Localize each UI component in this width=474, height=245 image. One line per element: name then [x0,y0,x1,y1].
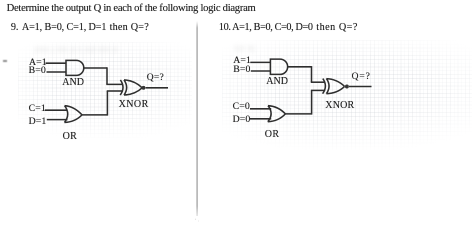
title [7,4,256,15]
wire input A (problem 9) [46,62,67,64]
problem 10 heading [219,23,358,33]
output label Q=? (problem 9) [147,74,164,84]
wire vertical up to XNOR bottom input (problem 10) [311,90,313,114]
XNOR output bubble dot (problem 9) [142,86,146,90]
gate label AND (problem 9) [62,78,84,88]
AND gate (problem 10) [270,59,287,74]
XNOR output bubble dot (problem 10) [345,85,349,89]
wire output Q (problem 10) [349,86,372,88]
wire input A (problem 10) [250,61,270,63]
value label A=1 (problem 9) [29,58,47,68]
OR gate (problem 10) [268,106,286,122]
wire input D (problem 9) [47,119,68,121]
wire AND output to corner (problem 10) [288,66,312,68]
wire input B (problem 9) [47,71,67,73]
XNOR gate (problem 9) [120,80,142,95]
divider line between problems [196,21,198,216]
value label C=0 (problem 10) [233,102,250,112]
wire OR output to corner (problem 10) [285,113,311,115]
gate label OR (problem 10) [265,130,280,140]
value label D=0 (problem 10) [233,115,251,125]
output label Q=? (problem 10) [352,73,371,83]
OR gate (problem 9) [65,106,83,123]
wire OR output to corner (problem 9) [82,114,107,116]
value label C=1 (problem 9) [29,104,46,114]
wire vertical down to XNOR top input (problem 9) [106,67,108,84]
wire vertical up to XNOR bottom input (problem 9) [106,91,108,116]
gate label OR (problem 9) [63,132,78,142]
value label D=1 (problem 9) [29,117,47,127]
XNOR gate (problem 10) [323,79,345,94]
value label B=0 (problem 9) [29,66,46,76]
speckle smudge at divider bottom [194,218,200,222]
wire input D (problem 10) [250,118,271,120]
value label A=1 (problem 10) [233,56,251,66]
gate label XNOR (problem 10) [325,101,354,111]
wire stub into XNOR bottom input (problem 9) [107,90,123,92]
gate label AND (problem 10) [266,77,288,87]
wire output Q (problem 9) [146,87,168,89]
value label B=0 (problem 10) [233,65,250,75]
wire vertical down to XNOR top input (problem 10) [311,66,313,82]
problem 9 heading [11,23,149,33]
AND gate (problem 9) [66,60,84,75]
wire stub into XNOR top input (problem 9) [106,83,122,85]
stray mark at left margin [3,60,8,62]
wire AND output to corner (problem 9) [84,67,107,69]
wire input B (problem 10) [251,70,271,72]
wire stub into XNOR bottom input (problem 10) [311,89,325,91]
wire stub into XNOR top input (problem 10) [311,81,325,83]
wire input C (problem 9) [45,109,68,111]
wire input C (problem 10) [250,108,271,110]
ghost bleed-through row [34,44,118,54]
gate label XNOR (problem 9) [119,100,149,110]
